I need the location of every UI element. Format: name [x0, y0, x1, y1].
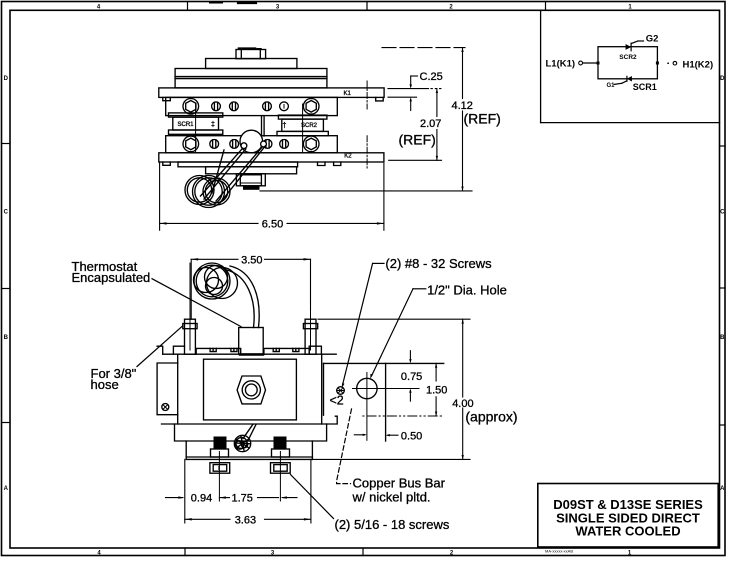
leader #8-32 screws — [373, 262, 384, 264]
SCR2 module bottom flange — [277, 131, 328, 135]
svg-text:D: D — [720, 76, 725, 82]
row2 bolt left — [183, 136, 199, 152]
circuit loop rectangle — [598, 47, 657, 79]
main block left edge — [177, 354, 179, 424]
screw head left (black) — [214, 437, 227, 450]
svg-text:L1(K1): L1(K1) — [546, 59, 576, 70]
svg-text:(2) 5/16 - 18 screws: (2) 5/16 - 18 screws — [335, 517, 450, 532]
svg-text:6.50: 6.50 — [262, 218, 283, 230]
terminal connector dark band — [243, 186, 260, 190]
clamp plate A — [175, 424, 327, 441]
dim 0.94 outside arrow — [166, 497, 183, 499]
svg-text:B: B — [4, 335, 9, 341]
right end tab — [309, 346, 321, 354]
bus bar left edge — [323, 363, 325, 415]
svg-text:MA-xxxxx-xxAB: MA-xxxxx-xxAB — [545, 549, 573, 554]
bus bar right edge — [385, 363, 387, 441]
thyristor SCR1 (bottom branch) — [614, 76, 632, 84]
SCR2 module centerline — [302, 104, 304, 152]
svg-text:K1: K1 — [344, 91, 352, 97]
strip notch c — [273, 348, 279, 351]
row1 hole d — [280, 102, 289, 111]
zone tick left B/A — [2, 422, 11, 424]
dim C.25 bracket — [411, 75, 418, 77]
capillary coil (side view) — [185, 176, 214, 205]
thermostat encapsulated block — [239, 328, 264, 355]
svg-text:G2: G2 — [646, 34, 659, 45]
node left junction — [597, 62, 600, 65]
hex bolt left — [210, 463, 230, 474]
dim 1.75 outside arrow right — [283, 497, 298, 499]
left side tab plate — [157, 363, 178, 415]
dim 0.75 lower arrow — [409, 391, 411, 401]
row2 screw b — [230, 140, 239, 149]
SCR2 module top flange — [278, 115, 327, 119]
dim 3.50 extension right — [310, 259, 312, 309]
title block box — [538, 484, 718, 548]
hole horizontal centerline — [353, 388, 420, 390]
zone tick right B/A — [720, 424, 726, 426]
svg-text:SCR2: SCR2 — [619, 54, 637, 61]
dim 6.50 line — [160, 222, 258, 224]
schematic enclosure left edge — [540, 10, 542, 122]
svg-text:C.25: C.25 — [420, 71, 443, 83]
svg-text:†: † — [283, 123, 287, 130]
left fitting centerline — [189, 263, 191, 350]
svg-text:SCR1: SCR1 — [178, 122, 195, 128]
fastener row block 2 — [166, 136, 338, 153]
grommet wire loop left — [241, 143, 247, 149]
svg-text:C: C — [4, 210, 9, 216]
upper plate wide — [175, 69, 327, 79]
main block bottom edge — [162, 423, 337, 425]
svg-text:Encapsulated: Encapsulated — [72, 270, 151, 285]
dim 3.50 extension left — [190, 259, 192, 319]
K2 left tab — [163, 162, 171, 165]
SCR1 module body — [173, 117, 219, 130]
right fitting centerline — [310, 263, 312, 350]
dim 6.50 extension right — [383, 163, 385, 230]
mounting hole 1/2 dia — [357, 378, 377, 398]
SCR1 module bottom flange — [169, 130, 223, 134]
dim 2.07 line — [436, 89, 438, 117]
dashdot centerline lower — [363, 415, 444, 417]
fastener row block 1 — [166, 97, 338, 115]
leader for 3/8 hose — [137, 327, 182, 367]
strip notch d — [293, 348, 299, 351]
wire bundle — [234, 435, 250, 451]
svg-text:C: C — [720, 210, 725, 216]
clamp strip right — [264, 348, 309, 354]
svg-text:‡: ‡ — [211, 122, 215, 129]
row2 bolt right — [303, 136, 319, 152]
recessed face — [204, 359, 297, 420]
screw head right (black) — [274, 437, 287, 450]
svg-text:<2: <2 — [330, 394, 344, 408]
dim 0.75 upper arrow — [409, 351, 411, 361]
dim 3.63 extension right — [310, 459, 312, 523]
dim 0.50 left arrow — [354, 434, 364, 436]
top plate edge — [163, 353, 337, 355]
svg-text:A: A — [4, 486, 9, 492]
node right junction — [656, 62, 659, 65]
clamp plate upper — [175, 79, 327, 88]
leader copper bus bar (dashed) — [337, 409, 352, 484]
dim C.25 extension bottom — [388, 96, 417, 98]
leader thermostat — [152, 279, 241, 327]
right hose fitting pipe — [305, 319, 316, 354]
zone tick right D/C — [720, 145, 726, 147]
K2 mid tab a — [318, 162, 326, 166]
thermostat coil front — [194, 263, 230, 299]
dim 0.50 right arrow — [388, 434, 398, 436]
gate wires to coil — [201, 148, 243, 196]
plate B — [186, 441, 312, 459]
dim 1.75 left tick — [219, 497, 229, 499]
zone tick top 4/3 — [187, 2, 189, 11]
row2 screw c — [263, 140, 272, 149]
K1 right tab — [376, 97, 384, 101]
dim 2.07 extension bottom — [389, 159, 442, 161]
SCR1 module top flange — [169, 113, 223, 117]
dim C.25 lower arrow — [410, 100, 412, 111]
screw base right — [272, 449, 290, 457]
dim 4.00 line — [462, 319, 464, 397]
left hose fitting pipe — [185, 319, 196, 354]
zone tick left D/C — [2, 143, 11, 145]
svg-text:1.75: 1.75 — [232, 493, 253, 505]
svg-text:SCR2: SCR2 — [301, 123, 318, 129]
svg-text:A: A — [720, 486, 725, 492]
SCR2 module body — [282, 119, 324, 131]
dim 3.50 line — [191, 258, 238, 260]
dim C.25 extension dashdot top — [388, 88, 429, 90]
tab screw — [162, 404, 169, 411]
svg-text:(REF): (REF) — [399, 132, 436, 148]
plate left step — [157, 346, 163, 354]
dim 1.50 line — [435, 363, 437, 381]
main block right edge — [321, 354, 323, 424]
K1 left tab — [163, 97, 171, 100]
hole vertical centerline — [366, 373, 368, 441]
leader 5/16-18 screws — [291, 475, 334, 519]
screw base left — [211, 449, 229, 457]
hex nut — [237, 376, 265, 404]
svg-text:G1: G1 — [607, 83, 616, 89]
row1 screw b — [230, 102, 239, 111]
svg-text:2.07: 2.07 — [420, 118, 441, 130]
wire stub dot right — [667, 63, 669, 64]
svg-text:hose: hose — [91, 377, 119, 392]
svg-text:3.50: 3.50 — [241, 254, 262, 266]
dim 3.63 line — [185, 518, 230, 520]
row2 screw a — [210, 140, 219, 149]
leader 1/2 dia hole — [413, 288, 426, 290]
dim 0.94 extension left — [184, 459, 186, 523]
dim C.25 upper arrow — [410, 76, 412, 87]
top stud bolt — [236, 50, 266, 59]
bus bar K1 — [159, 88, 384, 98]
svg-text:1.50: 1.50 — [426, 384, 447, 396]
zone tick left C/B — [2, 288, 11, 290]
svg-text:1/2" Dia. Hole: 1/2" Dia. Hole — [427, 283, 507, 298]
zone tick right C/B — [720, 287, 726, 289]
bus bar K2 — [159, 153, 384, 162]
bus bar hook — [335, 416, 337, 424]
dim 4.00 extension top — [318, 318, 470, 320]
svg-text:(2) #8 - 32 Screws: (2) #8 - 32 Screws — [385, 256, 492, 271]
bottom terminal block — [236, 174, 265, 186]
gate lead grommet — [240, 130, 263, 153]
bolt centerline left — [218, 452, 220, 502]
right fitting nut — [303, 324, 317, 329]
svg-text:0.50: 0.50 — [401, 431, 422, 443]
strip notch a — [210, 348, 216, 351]
svg-text:D: D — [4, 76, 9, 82]
svg-text:3.63: 3.63 — [235, 514, 256, 526]
wire L1 terminal to loop — [583, 62, 598, 64]
dim 4.12 extension dashed top — [382, 47, 465, 49]
strip notch b — [231, 348, 237, 351]
zone tick top 2/1 — [545, 2, 547, 11]
thyristor SCR2 (top branch) — [626, 41, 644, 51]
K2 mid tab b — [334, 162, 341, 166]
lower plate 1 — [178, 162, 298, 167]
upper plate small — [206, 59, 297, 69]
hex bolt right — [271, 463, 291, 474]
svg-text:Copper Bus Bar: Copper Bus Bar — [353, 475, 446, 490]
row1 bolt right — [303, 99, 319, 115]
copper bus bar top edge — [324, 362, 444, 364]
svg-text:K2: K2 — [344, 154, 352, 160]
plate B inner line — [186, 456, 312, 458]
small screw #8 — [337, 387, 345, 395]
hole centerline through bars — [366, 81, 368, 109]
SCR1 module centerline — [195, 104, 197, 152]
left fitting nut — [183, 324, 197, 329]
svg-text:SCR1: SCR1 — [633, 82, 657, 92]
row2 screw d — [280, 140, 289, 149]
thermostat base seal — [240, 353, 263, 355]
svg-text:H1(K2): H1(K2) — [683, 59, 714, 70]
grommet wire loop right — [261, 141, 267, 147]
row1 screw a — [212, 102, 221, 111]
svg-text:(REF): (REF) — [464, 111, 501, 127]
dim 4.12 line — [462, 48, 464, 99]
svg-text:WATER COOLED: WATER COOLED — [575, 524, 680, 539]
dim 6.50 extension left — [159, 163, 161, 230]
lower plate 2 — [206, 167, 297, 174]
zone tick bottom 3/2 — [362, 548, 364, 556]
zone tick top 3/2 — [366, 2, 368, 11]
left end tab — [173, 346, 184, 354]
dim 4.00 extension bottom — [312, 458, 470, 460]
svg-text:B: B — [720, 335, 725, 341]
zone tick bottom 4/3 — [184, 548, 186, 556]
top margin smudge — [210, 2, 222, 4]
svg-text:(approx): (approx) — [465, 409, 517, 425]
schematic enclosure bottom edge — [541, 122, 720, 124]
dim 1.75 right segment — [258, 497, 279, 499]
row1 screw c — [263, 102, 272, 111]
svg-text:0.75: 0.75 — [401, 371, 422, 383]
terminal H1(K2) — [673, 61, 677, 65]
row1 bolt left — [183, 99, 199, 115]
bolt centerline right — [279, 452, 281, 502]
terminal L1(K1) — [579, 61, 583, 65]
svg-text:0.94: 0.94 — [191, 493, 212, 505]
capillary tube to thermostat — [230, 266, 259, 328]
clamp strip left — [196, 348, 241, 354]
thermostat wires down — [243, 425, 253, 439]
center post lines — [261, 116, 263, 136]
svg-text:w/ nickel pltd.: w/ nickel pltd. — [352, 489, 431, 504]
dim 4.12 extension bottom — [260, 190, 472, 192]
